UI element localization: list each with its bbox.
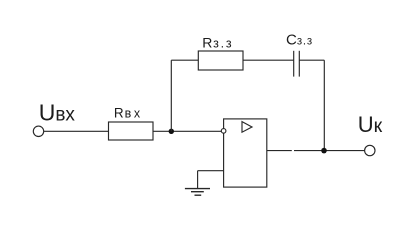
svg-text:Uвх: Uвх (39, 100, 76, 126)
ground bar 1 (185, 188, 210, 190)
op-amp U1 body (224, 119, 267, 187)
node A junction dot (169, 129, 174, 134)
capacitor Cз.з plate 2 (298, 51, 300, 77)
op-amp inverting input bubble (221, 129, 226, 134)
wire non-inverting input horizontal (198, 170, 224, 172)
ground bar 3 (195, 194, 202, 196)
capacitor Cз.з plate 1 (293, 51, 295, 77)
wire node A up to feedback (170, 60, 172, 131)
output terminal Uк (365, 145, 375, 155)
input terminal Uвх (33, 126, 43, 136)
wire feedback top left (171, 59, 198, 61)
node B output junction dot (321, 148, 327, 154)
wire right vertical drop to output node (323, 60, 325, 150)
op-amp triangle symbol (242, 122, 252, 133)
ground bar 2 (191, 191, 204, 193)
wire op-amp output segment 2 (294, 150, 365, 152)
svg-text:Uк: Uк (358, 112, 383, 137)
wire input to Rвх (44, 130, 109, 132)
wire Rз.з to Cз.з (243, 59, 294, 61)
svg-text:Cз.з: Cз.з (286, 31, 313, 48)
svg-text:Rвх: Rвх (114, 106, 143, 121)
wire Rвх to node A (153, 130, 221, 132)
wire non-inverting input down to ground (197, 171, 199, 189)
resistor Rвх (109, 122, 154, 140)
wire Cз.з to right drop (299, 59, 324, 61)
wire op-amp output segment 1 (267, 150, 292, 152)
resistor Rз.з (198, 51, 243, 70)
svg-text:Rз.з: Rз.з (202, 35, 233, 51)
